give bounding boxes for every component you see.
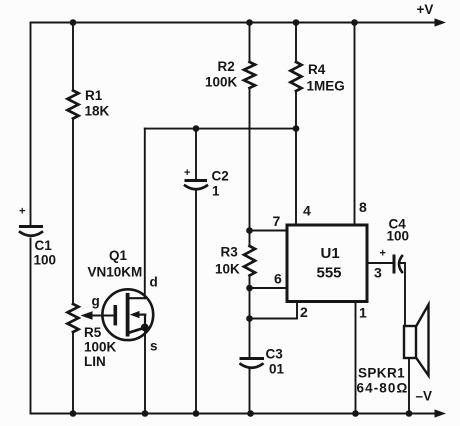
resistor R3 — [244, 246, 255, 276]
svg-text:–V: –V — [416, 389, 433, 404]
svg-text:100: 100 — [387, 229, 410, 244]
resistor R2 — [244, 62, 255, 88]
wire pin 7 lead — [250, 230, 288, 232]
svg-text:U1: U1 — [321, 245, 340, 262]
Q1 gate bar — [114, 307, 118, 324]
svg-text:R5: R5 — [84, 325, 102, 340]
capacitor C3 — [241, 359, 263, 368]
wire bottom -V rail — [31, 413, 437, 415]
svg-text:6: 6 — [274, 271, 282, 287]
wire C4 to speaker — [400, 263, 405, 326]
wire R2 bottom to R3 top — [249, 88, 251, 246]
wire C2 column top — [195, 129, 197, 180]
svg-text:01: 01 — [269, 362, 285, 377]
node mid rail at R4 — [293, 125, 300, 132]
svg-text:100K: 100K — [205, 75, 238, 90]
svg-text:C2: C2 — [212, 169, 229, 184]
wire pin 6 lead — [250, 287, 288, 289]
wire drain column — [144, 129, 146, 299]
+V arrowhead — [435, 18, 447, 26]
Q1 source junction blob — [141, 324, 149, 332]
op-amp U1 555 box — [287, 225, 367, 302]
speaker SPKR1 driver box — [404, 326, 416, 358]
speaker SPKR1 horn — [416, 305, 429, 376]
svg-text:SPKR1: SPKR1 — [358, 366, 405, 381]
wire pin 3 lead — [367, 262, 392, 264]
svg-text:Q1: Q1 — [109, 248, 128, 263]
wire C2 column bottom — [195, 192, 197, 414]
resistor R4 — [291, 62, 302, 91]
wire R2 column top — [249, 23, 251, 63]
Q1 source diagonal — [129, 328, 146, 333]
svg-text:3: 3 — [374, 265, 382, 281]
Q1 channel bar — [126, 295, 130, 335]
svg-text:64-80Ω: 64-80Ω — [357, 381, 409, 396]
node bottom rail at C3 — [247, 410, 254, 417]
svg-text:100: 100 — [34, 253, 57, 268]
svg-text:10K: 10K — [215, 262, 240, 277]
wire R1 bottom to R5 top — [72, 119, 74, 305]
wire left column upper (to C1) — [30, 23, 32, 227]
svg-text:R3: R3 — [221, 245, 239, 260]
wire R3 bottom to C3 — [249, 276, 251, 359]
svg-text:+: + — [184, 167, 190, 179]
svg-text:2: 2 — [300, 304, 308, 320]
wire C3 bottom to rail — [249, 370, 251, 414]
svg-text:18K: 18K — [85, 104, 110, 119]
node top rail at R1 — [70, 19, 77, 26]
svg-text:1: 1 — [212, 184, 220, 199]
svg-text:VN10KM: VN10KM — [88, 265, 143, 280]
capacitor C1 — [20, 227, 42, 236]
svg-text:C1: C1 — [35, 238, 53, 253]
svg-text:+V: +V — [417, 2, 434, 17]
svg-text:4: 4 — [303, 203, 311, 219]
node pin 7 junction — [246, 227, 253, 234]
wire source column to rail — [144, 329, 146, 414]
wire pin 1 column — [355, 302, 357, 414]
wire R5 bottom to rail — [72, 332, 74, 414]
svg-text:+: + — [19, 206, 25, 218]
svg-text:C3: C3 — [266, 347, 284, 362]
svg-text:g: g — [92, 294, 100, 309]
wire pin 2 lead — [250, 302, 298, 319]
wire mid horizontal rail — [145, 128, 296, 130]
node top rail at R2 — [246, 19, 253, 26]
node bottom rail at Q1 source — [142, 410, 149, 417]
node bottom rail at speaker — [406, 410, 413, 417]
Q1 drain link — [129, 297, 145, 299]
wire R1/R5 column top — [72, 23, 74, 91]
svg-text:1: 1 — [359, 305, 367, 321]
svg-text:+: + — [380, 248, 386, 260]
-V arrowhead — [435, 409, 447, 417]
svg-text:8: 8 — [359, 199, 367, 215]
svg-text:1MEG: 1MEG — [307, 79, 345, 94]
node pin 2 junction — [246, 315, 253, 322]
svg-text:R1: R1 — [85, 88, 103, 103]
wire pin 8 column — [354, 23, 356, 226]
svg-text:s: s — [150, 339, 158, 354]
svg-text:555: 555 — [317, 265, 342, 282]
wire R4 bottom to pin 4 — [295, 91, 297, 225]
capacitor C4 — [394, 256, 402, 272]
node top rail at pin 8 — [351, 19, 358, 26]
svg-text:100K: 100K — [84, 340, 117, 355]
node bottom rail at pin 1 — [352, 410, 359, 417]
node mid rail at C2 — [193, 125, 200, 132]
svg-text:7: 7 — [273, 213, 281, 229]
node pin 6 junction — [246, 285, 253, 292]
svg-text:R4: R4 — [308, 62, 326, 77]
svg-text:d: d — [150, 275, 158, 290]
wire R4 column top — [295, 23, 297, 63]
Q1 body arrow — [139, 314, 146, 316]
wire left column lower (C1 to bottom rail) — [30, 239, 32, 414]
R5 wiper arrow — [93, 315, 114, 317]
svg-text:R2: R2 — [218, 59, 235, 74]
capacitor C2 — [185, 181, 207, 190]
svg-text:LIN: LIN — [84, 354, 106, 369]
transistor Q1 body circle — [102, 289, 153, 340]
wire speaker to rail — [408, 358, 410, 414]
wire top +V rail — [31, 22, 436, 24]
node bottom rail at R5 — [70, 410, 77, 417]
resistor R1 — [68, 91, 79, 119]
Q1 body-source vertical — [144, 315, 146, 328]
potentiometer R5 — [68, 304, 79, 332]
node top rail at R4 — [293, 19, 300, 26]
node bottom rail at C2 — [193, 410, 200, 417]
